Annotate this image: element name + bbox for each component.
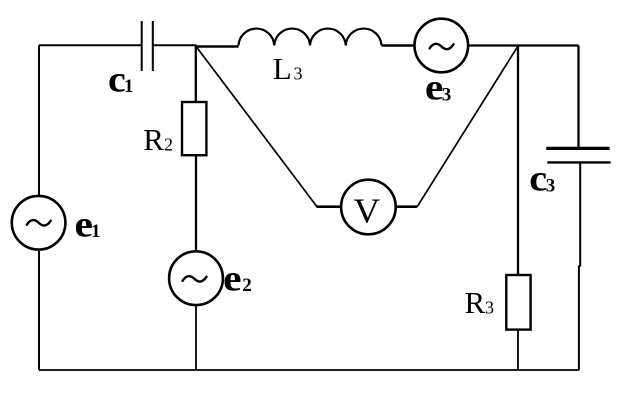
- wire e3 to top-right corner: [468, 44, 578, 46]
- wire e2 to bottom: [195, 305, 197, 370]
- wire left side top: [38, 45, 40, 196]
- svg-text:R: R: [465, 285, 486, 320]
- resistor R3: [506, 275, 530, 330]
- label e1: [75, 204, 101, 245]
- wire left side bottom: [38, 250, 40, 371]
- capacitor C3: [546, 148, 610, 162]
- ac source e3: [415, 19, 469, 73]
- wire C1 to node A: [153, 44, 197, 46]
- label L3: [273, 51, 303, 86]
- svg-text:2: 2: [242, 275, 252, 296]
- svg-text:3: 3: [546, 175, 556, 196]
- inductor L3: [239, 29, 382, 46]
- wire R3 to bottom: [517, 330, 519, 370]
- wire bottom: [39, 369, 579, 371]
- wire L3 to e3: [382, 44, 415, 47]
- wire diagonal node A to voltmeter: [197, 47, 318, 207]
- voltmeter V: [341, 180, 396, 235]
- svg-text:e: e: [223, 257, 241, 298]
- label e3: [425, 67, 451, 108]
- svg-text:e: e: [425, 67, 443, 108]
- resistor R2: [182, 102, 206, 155]
- svg-text:R: R: [143, 122, 164, 157]
- wire R2 to e2: [195, 155, 197, 251]
- svg-text:2: 2: [164, 134, 173, 154]
- svg-text:1: 1: [124, 76, 134, 97]
- wire top-left segment: [39, 44, 142, 46]
- svg-text:L: L: [273, 51, 292, 86]
- svg-text:V: V: [354, 192, 381, 230]
- label R2: [143, 122, 173, 157]
- wire right side down to C3: [577, 46, 579, 149]
- wire node B down to R3: [517, 46, 519, 276]
- label e2: [223, 257, 252, 298]
- label C1 value: [108, 59, 134, 100]
- capacitor C1: [142, 21, 153, 71]
- wire voltmeter left lead: [317, 205, 342, 208]
- wire below C3 to bottom-right corner: [579, 162, 580, 370]
- ac source e2: [169, 251, 223, 305]
- wire diagonal voltmeter to node B: [417, 46, 518, 207]
- label C3 value: [529, 158, 555, 199]
- svg-text:1: 1: [91, 221, 101, 242]
- svg-text:3: 3: [294, 64, 303, 84]
- wire node A down to R2: [195, 46, 197, 103]
- label R3: [465, 285, 495, 320]
- wire voltmeter right lead: [396, 205, 418, 208]
- wire node A to L3: [196, 45, 239, 48]
- svg-text:3: 3: [442, 85, 452, 106]
- svg-text:3: 3: [485, 298, 494, 318]
- svg-text:c: c: [529, 158, 547, 199]
- ac source e1: [12, 196, 66, 250]
